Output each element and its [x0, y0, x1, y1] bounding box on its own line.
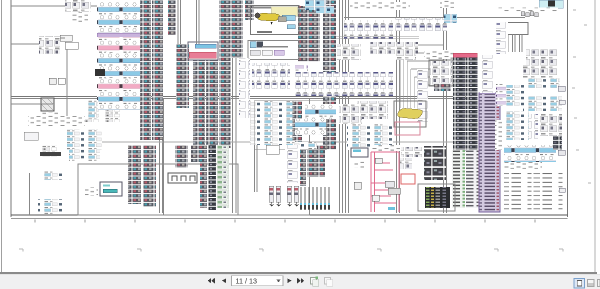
svg-text:11 / 13: 11 / 13	[236, 277, 257, 286]
